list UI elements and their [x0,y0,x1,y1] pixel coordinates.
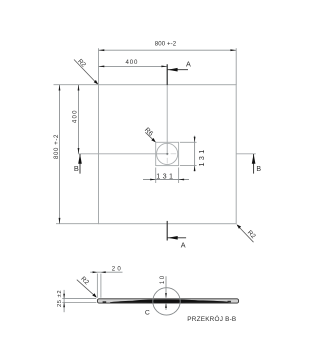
dimension 800 +-2 left [53,85,61,224]
svg-text:400: 400 [125,59,138,66]
plan view: tray outline square [99,85,237,224]
section marker A bottom [167,236,186,250]
right clip [228,301,231,303]
svg-text:10: 10 [160,274,166,284]
svg-text:A: A [186,59,191,68]
section marker B right [252,154,262,174]
extension line: top edge extended left [54,84,99,86]
drain square [156,142,179,165]
dimension 20 extension lines [96,274,98,298]
svg-text:20: 20 [112,266,123,273]
svg-text:PRZEKRÓJ B-B: PRZEKRÓJ B-B [187,314,236,323]
svg-text:400: 400 [72,109,79,123]
svg-text:B: B [74,164,79,173]
leader R6 [143,127,156,143]
extension line: right edge extended up [235,48,237,84]
section line A-A vertical top segment [166,64,168,155]
extension line: bottom edge extended left [56,223,99,225]
section line A-A vertical bottom segment [166,221,168,241]
dimension 25 +-2 [57,290,65,312]
svg-text:B: B [256,166,261,173]
tray floor (cut material) [110,300,229,303]
dimension 25 +-2 extension lines [62,298,96,300]
dimension 400 left [72,85,80,154]
dimension 10 [160,274,167,310]
svg-text:131: 131 [197,147,206,166]
leader R2 section [77,275,97,297]
extension line: left edge extended up [98,48,100,84]
dimension 131 horizontal below drain [143,168,189,184]
left clip [103,301,107,303]
svg-text:131: 131 [156,172,175,181]
drain centre dot [166,153,168,155]
leader R2 top-left corner [74,58,98,84]
leader R2 bottom-right corner [237,224,257,242]
dimension 400 top [99,59,168,67]
svg-text:C: C [145,309,150,316]
dimension 800 +-2 top [99,41,237,52]
drain circle [157,143,178,164]
dimension 20 [90,266,123,274]
section marker B left [74,154,82,174]
drain centre mark dashes [166,158,168,164]
svg-text:800 +-2: 800 +-2 [53,134,60,159]
svg-text:25 ±2: 25 ±2 [57,290,63,307]
tray section outline [97,299,238,303]
svg-text:800 +-2: 800 +-2 [155,41,177,48]
dimension 131 vertical right of drain [180,136,206,172]
section line B-B horizontal left segment [78,153,169,155]
detail circle C [153,288,180,315]
section line B-B horizontal right segment [236,153,256,155]
svg-text:A: A [181,241,186,250]
section marker A top [167,59,191,71]
centre thick floor band [133,299,199,303]
